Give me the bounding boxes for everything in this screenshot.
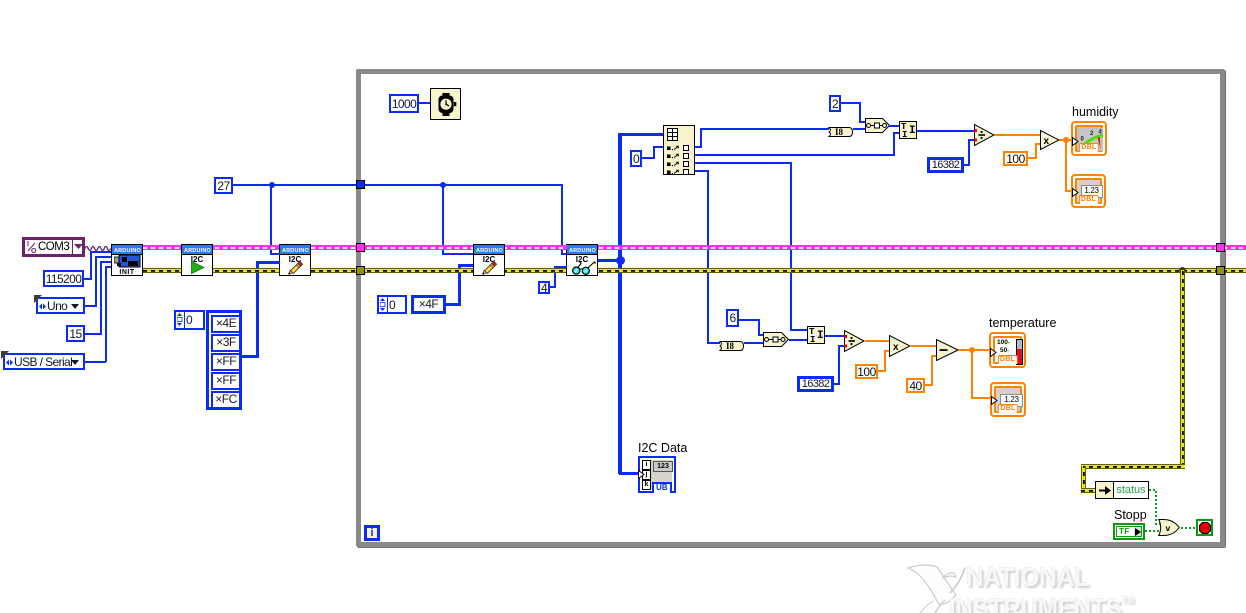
NI watermark eagle (900, 560, 972, 613)
wire multiply-b to subtract (911, 345, 937, 347)
humidity gauge indicator (1071, 121, 1107, 156)
multiply b (889, 335, 911, 362)
wire 6 to join-b (739, 319, 760, 321)
wire swap-b to divide-b (825, 335, 845, 337)
temperature thermometer indicator (989, 332, 1026, 368)
Arduino I2C write block 1 (pencil) (279, 244, 311, 276)
constant 15 (66, 325, 85, 342)
wire join-b to swap-b (789, 339, 808, 341)
wire x4F to write2 (446, 303, 460, 306)
index 0 + x4F constant (377, 295, 407, 314)
wire 100b to multiply-b (878, 370, 886, 372)
join numbers a (865, 118, 890, 138)
constant 0 (index array) (630, 150, 642, 167)
loop iteration terminal i (364, 525, 380, 541)
wire down to dbl indicator (1065, 139, 1067, 191)
subtract (936, 339, 959, 366)
wire Uno to INIT (85, 305, 96, 307)
svg-text:v: v (1166, 523, 1171, 533)
error wire branch down (1180, 270, 1185, 467)
row4 out to I8b (695, 170, 709, 172)
wire hex array to write1 (242, 355, 259, 358)
label temperature (989, 317, 1056, 331)
svg-text:ARDUINO: ARDUINO (184, 248, 212, 253)
junction dot 2 (440, 182, 446, 188)
junction dot 1 (269, 182, 275, 188)
tunnel error right (1216, 266, 1225, 275)
constant 100 a (1003, 151, 1028, 166)
wire pink Arduino resource horizontal (143, 245, 1246, 250)
error wire junction dot (1179, 267, 1186, 274)
constant 2 (829, 95, 841, 112)
wire join-a to swap-a (889, 125, 900, 127)
wire 16382a to divide-a (964, 164, 970, 166)
constant 6 (726, 309, 739, 327)
wire 27 horizontal (233, 184, 563, 186)
wire I8a to join-a (853, 128, 866, 130)
wire pink over crossing (439, 245, 451, 250)
wire error over crossing (455, 268, 463, 273)
divide b (844, 330, 865, 357)
ring constant Uno (36, 297, 85, 314)
tunnel error left (356, 266, 365, 275)
wire error over crossing (783, 268, 799, 273)
boolean wire OR to stop (1181, 527, 1197, 529)
wire 0 to index array (642, 157, 655, 159)
hex array index box (174, 310, 205, 330)
wire thick vertical to index array and I2C Data (618, 133, 622, 474)
constant 1000 (389, 94, 419, 113)
svg-text:ARDUINO: ARDUINO (476, 248, 504, 253)
constant 4 (538, 281, 550, 294)
constant 27 (214, 177, 233, 194)
wire error over crossing (703, 268, 711, 273)
wire error over crossing (551, 268, 559, 273)
wire error over crossing (255, 268, 263, 273)
wire multiply-a out (1059, 139, 1072, 141)
row2 out to swap-a lower input (695, 154, 895, 156)
wire 2 to join-a (841, 102, 861, 104)
wire error over crossing (615, 268, 631, 273)
wire USB to INIT (85, 361, 106, 363)
row1 out to I8a (695, 146, 702, 148)
label I2C Data (638, 442, 687, 456)
control COM3 (VISA resource) (22, 237, 85, 257)
to-I8 conversion b (719, 338, 744, 356)
ring constant USB / Serial (3, 353, 85, 370)
wire 100a to multiply-a (1028, 157, 1037, 159)
constant 100 b (855, 364, 878, 379)
wire divide-b to multiply-b (orange) (865, 340, 890, 342)
wait (ms) metronome (430, 88, 461, 120)
svg-text:I8: I8 (835, 127, 844, 137)
wire 16382b to divide-b (834, 383, 840, 385)
OR gate (1158, 519, 1180, 541)
tunnel pink left (356, 243, 365, 252)
wire I8b to join-b (744, 342, 764, 344)
humidity numeric DBL indicator (1071, 174, 1106, 208)
wire 115200 to INIT (84, 278, 92, 280)
tunnel pink right (1216, 243, 1225, 252)
Arduino I2C read block (glasses) (566, 244, 598, 276)
wire drop to write2 (442, 184, 444, 254)
svg-text:ARDUINO: ARDUINO (114, 248, 142, 253)
Arduino INIT block U-INIT (111, 244, 143, 276)
Arduino I2C write block 2 (pencil) (473, 244, 505, 276)
wire drop to read (561, 184, 563, 254)
index array function (663, 125, 695, 175)
svg-text:x: x (893, 342, 899, 353)
junction dot humidity (1063, 137, 1069, 143)
wire 1000 to wait (419, 102, 430, 104)
Stopp boolean terminal TF (1113, 523, 1145, 540)
row3 out to swap-b upper input (695, 162, 792, 164)
svg-text:I8: I8 (726, 341, 735, 351)
stop button terminal (1196, 519, 1213, 536)
wire divide-a to multiply-a (orange) (994, 134, 1041, 136)
constant 115200 (43, 270, 84, 287)
boolean wire status to OR (1149, 489, 1157, 491)
wire swap-a to divide-a (917, 130, 975, 132)
ring Uno corner fold (34, 295, 42, 303)
constant 16382 b (797, 376, 834, 392)
wire down to temp dbl (971, 349, 973, 399)
divide a (974, 124, 995, 151)
wire read output thick (598, 259, 622, 262)
label humidity (1072, 106, 1119, 120)
wire VISA squiggle COM3 to INIT (85, 244, 112, 251)
I2C Data array indicator (638, 456, 676, 493)
svg-text:ARDUINO: ARDUINO (569, 248, 597, 253)
Arduino I2C init block (green play) (181, 244, 213, 276)
boolean wire TF to OR (1145, 530, 1159, 532)
hex array shell (206, 310, 242, 410)
svg-text:ARDUINO: ARDUINO (282, 248, 310, 253)
wire pink over crossing (559, 245, 567, 250)
wire pink over crossing (783, 245, 799, 250)
tunnel blue left (356, 180, 365, 189)
wire pink over crossing (263, 245, 279, 250)
junction dot read output (616, 256, 625, 265)
join numbers b (763, 332, 789, 352)
svg-text:x: x (1044, 136, 1050, 147)
wire 40 to subtract (925, 384, 933, 386)
wire subtract out (958, 349, 990, 351)
while loop border (356, 69, 1225, 547)
unbundle status (1095, 481, 1114, 499)
swap bytes b (807, 326, 825, 344)
ring USB corner fold (1, 351, 9, 359)
NI watermark text NATIONAL (966, 564, 1089, 590)
wire pink over crossing (615, 245, 631, 250)
wire pink over crossing (703, 245, 711, 250)
x4F array shell (411, 295, 446, 314)
swap bytes a (899, 121, 917, 139)
constant 40 (906, 378, 925, 393)
svg-text:I: I (27, 241, 29, 248)
NI watermark text INSTRUMENTS (949, 587, 1134, 613)
constant 16382 a (927, 157, 964, 173)
wire error cluster horizontal (143, 268, 1246, 273)
wire 4 to read (550, 286, 556, 288)
label Stopp (1114, 509, 1147, 523)
svg-text:O: O (31, 248, 37, 254)
wire 15 to INIT (85, 333, 101, 335)
multiply a (1040, 130, 1060, 155)
wire drop to write1 (270, 184, 272, 254)
temperature numeric DBL indicator (990, 382, 1026, 417)
junction dot temperature (969, 347, 975, 353)
to-I8 conversion a (828, 124, 853, 142)
